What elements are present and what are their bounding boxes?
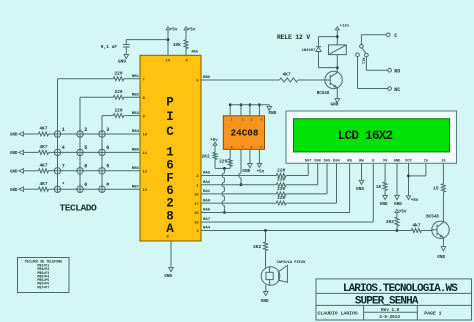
svg-text:15: 15 bbox=[433, 186, 439, 192]
svg-text:+5v: +5v bbox=[399, 210, 407, 214]
svg-text:220: 220 bbox=[219, 159, 227, 165]
svg-text:NC: NC bbox=[394, 87, 400, 93]
svg-text:C: C bbox=[166, 125, 174, 139]
svg-text:6: 6 bbox=[106, 145, 109, 151]
svg-text:13: 13 bbox=[143, 189, 148, 193]
svg-text:RA5: RA5 bbox=[192, 51, 198, 55]
svg-text:RB7: RB7 bbox=[132, 185, 140, 189]
svg-text:220: 220 bbox=[277, 195, 285, 201]
svg-text:GND: GND bbox=[268, 111, 276, 116]
svg-text:7: 7 bbox=[242, 146, 244, 149]
svg-text:14: 14 bbox=[165, 60, 170, 64]
svg-text:*: * bbox=[62, 182, 65, 188]
svg-text:18: 18 bbox=[194, 194, 199, 198]
svg-text:1: 1 bbox=[231, 119, 233, 122]
svg-text:15: 15 bbox=[424, 159, 429, 163]
svg-text:GND: GND bbox=[356, 187, 364, 192]
svg-text:24C08: 24C08 bbox=[231, 127, 259, 138]
svg-text:#: # bbox=[106, 182, 109, 188]
svg-text:+5v: +5v bbox=[411, 199, 419, 203]
svg-text:2: 2 bbox=[166, 196, 174, 210]
svg-text:LARIOS.TECNOLOGIA.WS: LARIOS.TECNOLOGIA.WS bbox=[343, 283, 458, 295]
svg-text:2: 2 bbox=[242, 119, 244, 122]
svg-text:PB7=P7: PB7=P7 bbox=[37, 285, 49, 289]
svg-text:GND: GND bbox=[331, 103, 339, 108]
svg-text:4K7: 4K7 bbox=[39, 126, 47, 132]
svg-text:RL1: RL1 bbox=[360, 58, 364, 64]
svg-text:D05: D05 bbox=[324, 159, 331, 163]
svg-text:4: 4 bbox=[260, 119, 262, 122]
svg-text:RB1: RB1 bbox=[132, 75, 140, 79]
svg-text:16: 16 bbox=[194, 222, 199, 226]
svg-text:RB4: RB4 bbox=[132, 130, 140, 134]
svg-text:1: 1 bbox=[166, 145, 174, 159]
svg-text:0: 0 bbox=[84, 182, 87, 188]
svg-text:2K2: 2K2 bbox=[386, 219, 394, 225]
svg-text:4K7: 4K7 bbox=[39, 181, 47, 187]
svg-text:P: P bbox=[166, 95, 174, 109]
svg-text:5: 5 bbox=[84, 145, 87, 151]
svg-text:BC548: BC548 bbox=[317, 92, 330, 96]
svg-text:10K: 10K bbox=[173, 42, 181, 48]
svg-text:6: 6 bbox=[250, 146, 252, 149]
svg-text:16: 16 bbox=[441, 159, 445, 163]
svg-text:4K7: 4K7 bbox=[39, 144, 47, 150]
svg-text:SUPER_SENHA: SUPER_SENHA bbox=[355, 296, 419, 308]
svg-text:I: I bbox=[166, 110, 174, 124]
svg-text:RELE 12 V: RELE 12 V bbox=[277, 34, 310, 41]
svg-text:A: A bbox=[166, 222, 174, 236]
svg-text:+5v: +5v bbox=[210, 139, 218, 143]
svg-text:4K7: 4K7 bbox=[282, 72, 290, 78]
svg-text:GND: GND bbox=[10, 170, 18, 174]
svg-text:220: 220 bbox=[277, 186, 285, 192]
svg-text:VCC: VCC bbox=[405, 159, 412, 163]
svg-text:RW: RW bbox=[359, 159, 364, 163]
svg-text:220: 220 bbox=[114, 107, 122, 113]
svg-text:GND: GND bbox=[380, 202, 388, 207]
svg-text:TECLADO: TECLADO bbox=[59, 203, 97, 214]
svg-text:220: 220 bbox=[114, 89, 122, 95]
svg-text:220: 220 bbox=[277, 177, 285, 183]
svg-text:11: 11 bbox=[143, 152, 148, 156]
svg-text:5: 5 bbox=[260, 146, 262, 149]
svg-text:1: 1 bbox=[62, 127, 65, 133]
svg-text:GND: GND bbox=[10, 152, 18, 156]
svg-text:2K2: 2K2 bbox=[253, 244, 261, 250]
svg-text:4: 4 bbox=[62, 145, 65, 151]
svg-text:1K: 1K bbox=[376, 184, 382, 190]
svg-text:RB0: RB0 bbox=[203, 76, 211, 80]
svg-text:+5v: +5v bbox=[188, 29, 196, 33]
svg-text:GND: GND bbox=[164, 274, 172, 279]
svg-text:7: 7 bbox=[62, 164, 65, 170]
svg-text:BC548: BC548 bbox=[426, 216, 439, 220]
svg-text:D07: D07 bbox=[305, 159, 312, 163]
svg-text:220: 220 bbox=[114, 71, 122, 77]
svg-text:D06: D06 bbox=[314, 159, 321, 163]
svg-text:CLAUDIO LARIOS: CLAUDIO LARIOS bbox=[318, 311, 358, 317]
svg-text:RB5: RB5 bbox=[132, 149, 140, 153]
svg-text:9: 9 bbox=[106, 164, 109, 170]
svg-text:2: 2 bbox=[84, 127, 87, 133]
svg-text:12: 12 bbox=[143, 171, 148, 175]
svg-text:+12v: +12v bbox=[340, 24, 350, 28]
svg-text:RB6: RB6 bbox=[132, 167, 140, 171]
svg-text:RB3: RB3 bbox=[132, 112, 140, 116]
svg-text:RS: RS bbox=[347, 159, 352, 163]
svg-text:D04: D04 bbox=[333, 159, 340, 163]
svg-text:0,1 uF: 0,1 uF bbox=[101, 44, 118, 50]
svg-text:4K7: 4K7 bbox=[39, 163, 47, 169]
svg-text:GND: GND bbox=[394, 159, 401, 163]
svg-text:CAPSULA PIEZO: CAPSULA PIEZO bbox=[277, 261, 307, 265]
svg-text:C: C bbox=[394, 33, 397, 39]
svg-text:3-6-2013: 3-6-2013 bbox=[379, 315, 400, 320]
svg-text:NO: NO bbox=[394, 69, 400, 75]
svg-text:8: 8 bbox=[84, 164, 87, 170]
svg-text:GND: GND bbox=[10, 189, 18, 193]
svg-text:15: 15 bbox=[194, 212, 199, 216]
svg-text:4k7: 4k7 bbox=[412, 222, 420, 228]
svg-text:GND: GND bbox=[118, 60, 126, 65]
svg-text:3: 3 bbox=[250, 119, 252, 122]
svg-text:V0: V0 bbox=[383, 159, 387, 163]
svg-text:PAGE 1: PAGE 1 bbox=[424, 311, 441, 317]
svg-text:Rev 1.0: Rev 1.0 bbox=[381, 308, 399, 313]
svg-text:+5v: +5v bbox=[170, 29, 178, 33]
svg-text:+5v: +5v bbox=[257, 170, 265, 174]
svg-text:GND: GND bbox=[394, 202, 402, 207]
svg-text:3: 3 bbox=[106, 127, 109, 133]
svg-text:17: 17 bbox=[194, 203, 199, 207]
svg-text:1N4007: 1N4007 bbox=[302, 49, 316, 53]
svg-text:RB2: RB2 bbox=[132, 93, 140, 97]
svg-text:GND: GND bbox=[10, 134, 18, 138]
svg-text:GND: GND bbox=[242, 169, 250, 174]
svg-text:LCD 16X2: LCD 16X2 bbox=[338, 128, 393, 143]
svg-text:8: 8 bbox=[231, 146, 233, 149]
svg-text:220: 220 bbox=[277, 167, 285, 173]
svg-text:10: 10 bbox=[143, 134, 148, 138]
svg-text:GND: GND bbox=[437, 255, 445, 260]
svg-text:2K2: 2K2 bbox=[202, 154, 210, 160]
svg-text:GND: GND bbox=[261, 299, 269, 304]
